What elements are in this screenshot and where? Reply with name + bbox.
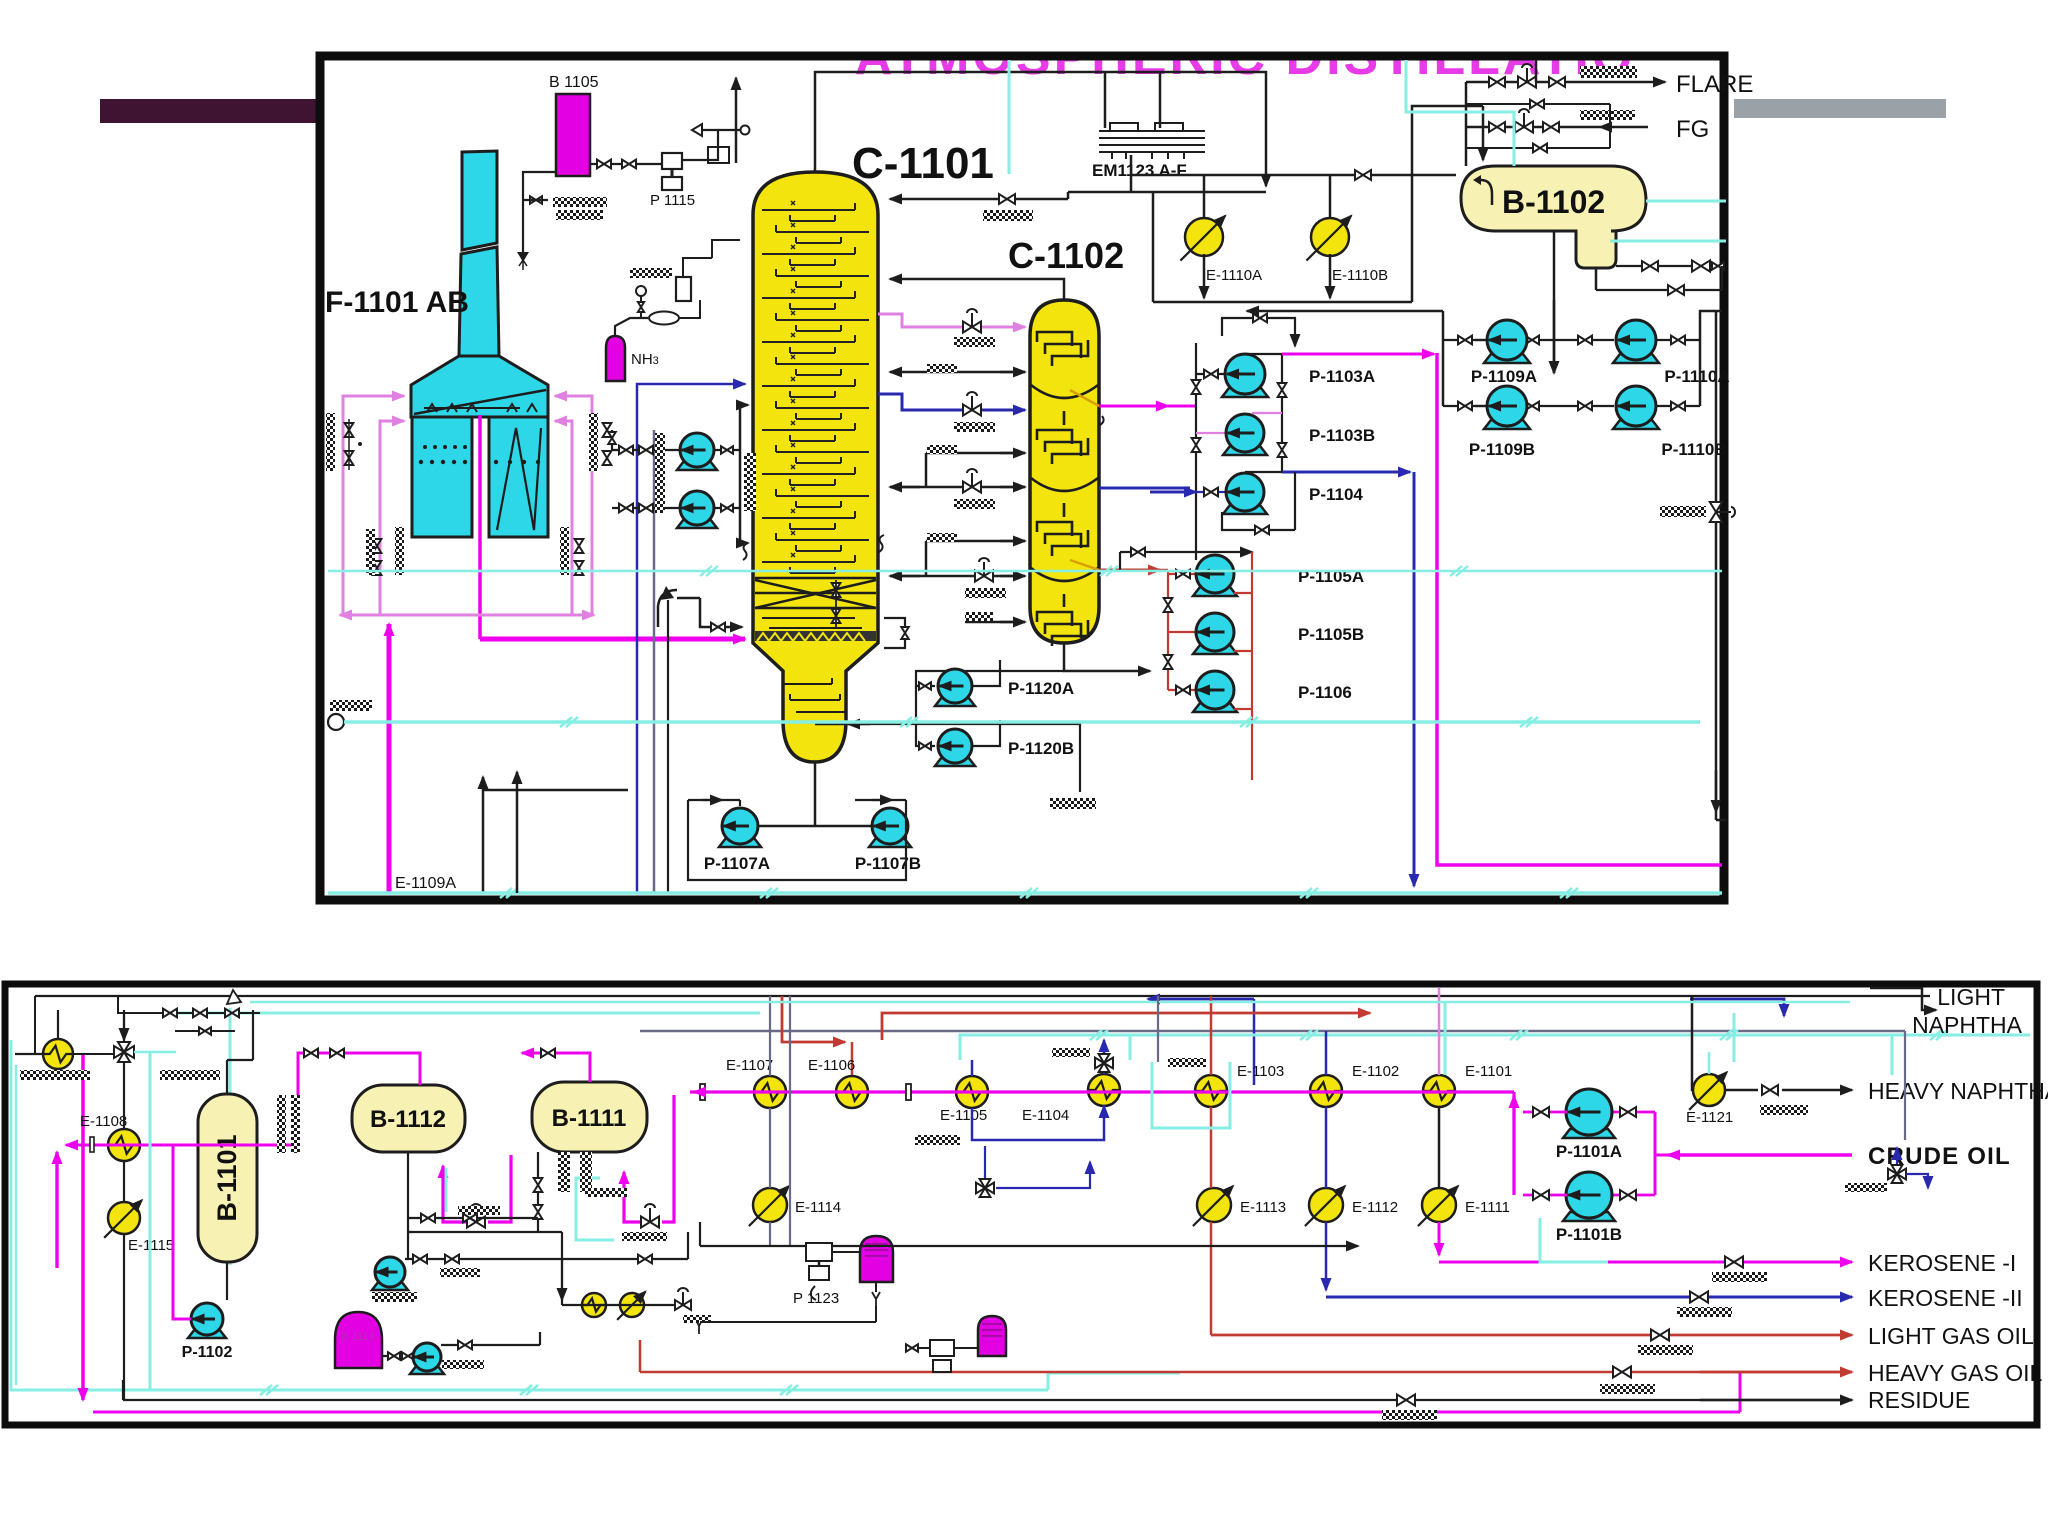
svg-text:P-1101A: P-1101A <box>1556 1142 1622 1161</box>
svg-text:B-1112: B-1112 <box>370 1106 446 1133</box>
drum B-1105 <box>556 94 590 176</box>
svg-text:E-1113: E-1113 <box>1240 1199 1286 1216</box>
heavy naphtha product <box>1725 1089 1758 1092</box>
column C-1101 <box>753 172 878 762</box>
svg-text:KEROSENE -II: KEROSENE -II <box>1868 1285 2023 1311</box>
E-1103 riser <box>1157 996 1159 1062</box>
svg-text:LIGHT GAS OIL: LIGHT GAS OIL <box>1868 1323 2034 1349</box>
vessel B-1101 <box>198 1094 257 1262</box>
slide accent bar left <box>100 99 316 123</box>
draw line 1 pink w/ control valve <box>878 314 1025 327</box>
drain valves to edge <box>1616 265 1722 267</box>
furnace F-1101 AB stack <box>462 151 497 250</box>
pump P-1110B <box>1613 420 1659 429</box>
E-1121 riser cyan <box>1733 1013 1736 1062</box>
C-1101 trays <box>762 201 869 573</box>
furnace F-1101 AB body <box>411 356 548 417</box>
svg-text:E-1111: E-1111 <box>1465 1199 1510 1216</box>
svg-text:HEAVY NAPHTHA: HEAVY NAPHTHA <box>1868 1078 2048 1104</box>
navy return w/ arrow <box>1148 998 1254 1001</box>
residue arrow <box>1700 1399 1852 1402</box>
svg-text:E-1110A: E-1110A <box>1206 267 1262 284</box>
pink pass return header <box>340 614 480 617</box>
bottoms pumps P-1107A/B <box>814 762 817 826</box>
pump P-1105B <box>1193 645 1237 654</box>
svg-text:P-1105B: P-1105B <box>1298 625 1364 644</box>
pressure valve P 1115 <box>662 153 682 169</box>
svg-text:B-1111: B-1111 <box>552 1105 627 1132</box>
svg-text:P-1109B: P-1109B <box>1469 440 1535 459</box>
lines from P-1107 up to exchanger train (bottom border) <box>516 772 519 893</box>
risers to E-1107/E-1106 <box>769 996 771 1076</box>
exchanger top-left <box>43 1039 73 1069</box>
exchanger E-1108 <box>108 1129 140 1161</box>
4-way mixing valve <box>114 1042 134 1062</box>
pump P-1110A <box>1613 354 1659 363</box>
svg-text:P-1102: P-1102 <box>182 1344 233 1361</box>
condenser header to E-1110 <box>1131 174 1456 177</box>
svg-text:B 1105: B 1105 <box>549 74 599 91</box>
condensate header to B-1102 <box>1153 301 1412 304</box>
pump P-1105A <box>1193 587 1237 596</box>
pump P-1104 <box>1223 505 1267 514</box>
svg-text:E-1106: E-1106 <box>808 1057 855 1074</box>
svg-text:LIGHT: LIGHT <box>1937 984 2005 1010</box>
svg-text:P-1120A: P-1120A <box>1008 679 1074 698</box>
navy splitter near right <box>1888 1165 1906 1183</box>
discharge header kerosene <box>1245 353 1282 355</box>
magenta transfer line furnace to C-1101 <box>478 415 482 639</box>
slide accent bar right <box>1734 99 1946 118</box>
caustic line w/ exchangers <box>562 1304 680 1306</box>
svg-text:P-1101B: P-1101B <box>1556 1225 1622 1244</box>
svg-text:E-1114: E-1114 <box>795 1199 841 1216</box>
kerosene-II product <box>1326 1296 1852 1299</box>
return line 5 <box>965 621 1025 624</box>
svg-text:P-1103B: P-1103B <box>1309 426 1375 445</box>
exchanger E-1112 <box>1309 1188 1343 1222</box>
E-1108 crude branch <box>66 1144 298 1147</box>
reboiler return piping bottom left <box>700 598 742 627</box>
trim condenser E-1110A <box>1185 218 1223 256</box>
residue long line <box>123 1399 1852 1401</box>
heavy gas oil arrow <box>1700 1371 1852 1374</box>
circulating pump upper <box>677 461 717 470</box>
E-1114 branch <box>769 1222 771 1246</box>
suction header P-1103/P-1104 <box>1195 335 1197 337</box>
chemical pot mid <box>860 1236 893 1282</box>
C-1101 packing section <box>755 578 876 608</box>
svg-text:FLARE: FLARE <box>1676 71 1753 98</box>
svg-text:P-1106: P-1106 <box>1298 683 1352 702</box>
svg-text:E-1102: E-1102 <box>1352 1063 1399 1080</box>
svg-text:KEROSENE -I: KEROSENE -I <box>1868 1250 2016 1276</box>
squiggle break marks <box>743 543 748 560</box>
exchanger E-1101 <box>1423 1075 1455 1107</box>
svg-text:P-1110A: P-1110A <box>1664 367 1729 386</box>
pump P-1103A <box>1222 388 1268 397</box>
draw line 2 blue w/ control valve <box>878 394 1025 410</box>
exchanger E-1103 <box>1195 1075 1227 1107</box>
svg-text:P-1109A: P-1109A <box>1471 367 1537 386</box>
frame of upper flow diagram <box>320 56 1724 900</box>
bold magenta bottom run <box>81 1055 85 1400</box>
svg-text:E-1109A: E-1109A <box>395 875 456 892</box>
C-1102 overhead to C-1101 <box>890 279 1064 300</box>
B-1101 piping <box>226 1060 228 1094</box>
svg-text:E-1108: E-1108 <box>80 1113 127 1130</box>
pink furnace pass piping right <box>555 396 592 615</box>
return line 3 <box>926 540 1025 543</box>
exchanger E-1121 <box>1693 1074 1725 1106</box>
black drop from C-1101 bottom area <box>884 618 905 648</box>
P-1102 pump <box>188 1329 226 1338</box>
pump P-1101B <box>1563 1212 1615 1221</box>
hot streams down through train <box>1210 996 1213 1075</box>
cyan near P-1101B <box>1540 1218 1608 1262</box>
exchanger E-1107 <box>754 1076 786 1108</box>
4-way near E-1105 <box>1095 1054 1113 1072</box>
suction drop to product pumps <box>1553 231 1556 373</box>
cyan desalter loops <box>445 1168 448 1212</box>
light naphtha takeoff <box>1870 988 1936 1010</box>
red transfer line <box>882 1013 1370 1040</box>
exchanger E-1111 <box>1422 1188 1456 1222</box>
suction header P-1105/P-1106 <box>1160 569 1168 572</box>
heavy naphtha from top <box>1692 996 1694 1090</box>
dosing instruments <box>615 318 648 336</box>
caustic exchangers <box>582 1293 606 1317</box>
B-1105 outlet piping <box>590 163 662 165</box>
long black return line lower left <box>483 789 872 791</box>
trim condenser E-1110B <box>1311 218 1349 256</box>
letdown valve on right <box>1715 311 1718 808</box>
return line 2 <box>926 452 1025 455</box>
column C-1102 <box>1030 300 1099 643</box>
pink furnace pass piping left <box>343 396 404 615</box>
svg-text:B-1113: B-1113 <box>341 1331 375 1343</box>
svg-text:F-1101 AB: F-1101 AB <box>325 286 469 319</box>
cyan secondary header <box>250 1001 1850 1004</box>
second drain assembly <box>930 1340 954 1356</box>
B-1113 injection <box>382 1355 414 1357</box>
hatch marks lower left <box>366 529 375 575</box>
recirculation top <box>1222 318 1295 346</box>
cyan bottom runs <box>11 1040 600 1390</box>
svg-text:P-1107A: P-1107A <box>704 854 770 873</box>
frame of lower flow diagram <box>5 984 2037 1425</box>
svg-text:E-1104: E-1104 <box>1022 1107 1069 1124</box>
navy mixing tee below E-1105 <box>984 1146 986 1178</box>
B-1105 left drain <box>523 172 556 200</box>
cyan long utility lines <box>328 714 344 730</box>
pump P-1120A <box>935 697 975 706</box>
cyan utility top <box>960 1035 2030 1060</box>
chemical pot right <box>978 1316 1006 1356</box>
svg-text:C-1102: C-1102 <box>1008 235 1124 276</box>
return line 1 <box>926 371 1025 374</box>
C-1101 overhead line <box>815 72 1266 186</box>
svg-text:P-1107B: P-1107B <box>855 854 921 873</box>
crude to desalters <box>662 1095 674 1222</box>
desalter top vents magenta <box>298 1053 420 1145</box>
svg-text:B-1101: B-1101 <box>212 1134 242 1221</box>
cyan loops mid <box>648 1262 1035 1285</box>
drum B-1111 <box>532 1082 647 1152</box>
exchanger E-1102 <box>1310 1075 1342 1107</box>
drum B-1112 <box>352 1085 465 1152</box>
exchanger E-1106 <box>836 1076 868 1108</box>
pump P-1120B <box>935 757 975 766</box>
pump P-1101A <box>1563 1129 1615 1138</box>
slate header <box>640 1030 1905 1033</box>
valve cluster right of furnace <box>589 413 598 471</box>
hatch marks scattered <box>330 700 372 711</box>
air cooler EM1123 A-F <box>1104 72 1107 128</box>
svg-text:P 1115: P 1115 <box>650 192 695 209</box>
desalter manifold second line <box>408 1217 538 1219</box>
bold magenta feed riser E-1109A <box>387 624 392 893</box>
exchanger E-1104 <box>1088 1074 1120 1106</box>
B-1102 boot outlet <box>1595 268 1598 290</box>
P-1110 discharge to battery limit <box>1656 339 1700 341</box>
E-1115 connections <box>123 1161 125 1202</box>
svg-text:E-1105: E-1105 <box>940 1107 987 1124</box>
relief valve to vent <box>682 130 718 160</box>
vent line up from P1115 <box>735 78 738 163</box>
chemical pot B-1113 <box>335 1312 382 1368</box>
B-1101 riser magenta <box>172 1145 174 1300</box>
svg-text:E-1110B: E-1110B <box>1332 267 1388 284</box>
black riser under furnace <box>482 777 485 893</box>
E-1114 risers <box>833 1092 835 1188</box>
svg-text:RESIDUE: RESIDUE <box>1868 1387 1970 1413</box>
valve cluster left of furnace <box>326 413 335 471</box>
svg-text:B-1102: B-1102 <box>1502 184 1605 220</box>
circulating pump lower <box>677 519 717 528</box>
draw line 3 w/ control valve <box>890 486 1025 489</box>
cooler drop to E-1121 <box>1708 1052 1711 1074</box>
draw line 4 w/ control valve <box>890 575 1025 578</box>
svg-text:CRUDE OIL: CRUDE OIL <box>1868 1143 2011 1170</box>
reflux drum B-1102 <box>1461 166 1646 268</box>
svg-text:FG: FG <box>1676 116 1709 143</box>
svg-text:P 1123: P 1123 <box>793 1290 839 1307</box>
reflux discharge line <box>1443 339 1487 341</box>
exchanger E-1115 <box>108 1202 140 1234</box>
water draw pump <box>405 1258 688 1260</box>
kerosene-I product <box>1439 1261 1852 1264</box>
blue ammonia line to column <box>637 384 745 893</box>
P-1101 pumps crude charge <box>1668 1153 1852 1156</box>
FLARE line <box>1466 81 1650 84</box>
C-1102 bottoms <box>1064 643 1150 671</box>
light gas oil product <box>1211 1334 1852 1337</box>
FG line <box>1612 126 1648 129</box>
C-1102 internals <box>1031 332 1098 646</box>
reflux return w/ valve <box>1067 192 1070 199</box>
svg-text:C-1101: C-1101 <box>852 139 994 188</box>
side product red from C-1102 <box>1070 560 1099 570</box>
purple return riser <box>653 430 656 893</box>
svg-text:E-1103: E-1103 <box>1237 1063 1284 1080</box>
exchanger E-1105 <box>956 1076 988 1108</box>
svg-text:EM1123 A-F: EM1123 A-F <box>1092 161 1187 180</box>
exchanger E-1114 <box>753 1188 787 1222</box>
exchanger E-1113 <box>1197 1188 1231 1222</box>
cyan right verticals <box>1904 1031 1906 1140</box>
svg-text:E-1121: E-1121 <box>1686 1109 1733 1126</box>
pump discharge riser into column <box>714 449 740 451</box>
magenta arrows up at left <box>55 1152 58 1190</box>
mid black transfer <box>700 1245 1345 1247</box>
svg-text:E-1107: E-1107 <box>726 1057 773 1074</box>
svg-text:E-1101: E-1101 <box>1465 1063 1512 1080</box>
bottom right streams <box>1437 353 1722 865</box>
svg-text:HEAVY GAS OIL: HEAVY GAS OIL <box>1868 1360 2042 1386</box>
slate line through desalter area <box>612 1231 688 1233</box>
top black header <box>35 995 1930 997</box>
pump P-1109A <box>1484 354 1530 363</box>
valve pair mid left <box>832 583 841 597</box>
svg-text:P-1120B: P-1120B <box>1008 739 1074 758</box>
crude main line through preheat train <box>690 1090 1514 1093</box>
P-1123 drain assembly <box>806 1243 832 1261</box>
side product magenta from C-1102 <box>1070 390 1099 406</box>
cyan utility at B-1102 <box>1406 60 1514 166</box>
black line under pots <box>700 1321 876 1323</box>
hatch column left <box>744 453 756 511</box>
svg-text:P-1104: P-1104 <box>1309 485 1363 504</box>
B-1112 bottoms manifold <box>407 1152 409 1259</box>
svg-text:P-1103A: P-1103A <box>1309 367 1375 386</box>
pump P-1106 <box>1193 703 1237 712</box>
E-1108 inlet elbow <box>57 1069 59 1150</box>
heavy gas oil long line <box>640 1371 1852 1374</box>
pump P-1103B <box>1223 446 1267 455</box>
B-1101 side hatches <box>277 1095 286 1153</box>
mixing valve risers <box>123 1010 125 1042</box>
svg-text:NAPHTHA: NAPHTHA <box>1912 1012 2023 1038</box>
NH3 cylinder <box>606 336 625 381</box>
misc bowties top left <box>140 1012 260 1014</box>
svg-text:E-1112: E-1112 <box>1352 1199 1398 1216</box>
pump P-1109B <box>1484 420 1530 429</box>
clipped magenta title remnant <box>855 28 1636 86</box>
side product blue from C-1102 <box>1099 487 1190 490</box>
bottoms to battery limit <box>815 723 862 726</box>
